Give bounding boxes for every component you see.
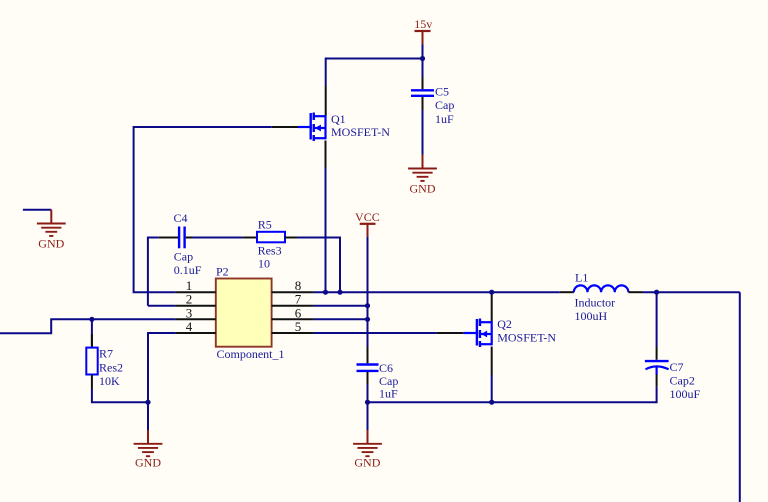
- svg-text:4: 4: [186, 319, 193, 334]
- transistor Q1 source pin: [325, 141, 327, 168]
- power port 15v stem: [422, 31, 424, 45]
- pin 8: [272, 291, 314, 293]
- ground symbol under P2: [134, 444, 163, 456]
- svg-text:C5: C5: [435, 85, 449, 99]
- wire R5 to node SW: [297, 238, 340, 293]
- capacitor C5 pin 2: [422, 97, 424, 110]
- svg-text:MOSFET-N: MOSFET-N: [497, 331, 556, 345]
- ground symbol under C6: [353, 444, 382, 456]
- wire junction to C5: [422, 59, 424, 78]
- svg-text:GND: GND: [38, 237, 64, 251]
- svg-text:0.1uF: 0.1uF: [174, 263, 202, 277]
- svg-text:10K: 10K: [99, 374, 120, 388]
- wire pin3 to left edge with jog: [0, 319, 175, 333]
- ground stem under C5: [422, 155, 424, 169]
- junction dot ground rail left: [145, 400, 150, 405]
- transistor Q1 drain pin: [325, 86, 327, 116]
- svg-text:Inductor: Inductor: [575, 296, 616, 310]
- svg-text:Q2: Q2: [497, 317, 512, 331]
- wire L1 to output: [643, 291, 740, 293]
- capacitor C4 pin 2: [186, 237, 193, 239]
- capacitor C5 pin 1: [422, 77, 424, 89]
- wire C6 junction to ground: [367, 402, 369, 430]
- wire Q1 gate loop: [134, 127, 272, 292]
- pin 3: [175, 318, 215, 320]
- wire Q2 source to rail: [491, 375, 493, 402]
- svg-text:1uF: 1uF: [435, 112, 454, 126]
- wire junction to ground: [147, 402, 149, 430]
- transistor Q2 drain pin: [491, 294, 493, 322]
- svg-text:P2: P2: [216, 265, 229, 279]
- svg-text:C4: C4: [174, 211, 188, 225]
- transistor Q2 symbol: [477, 319, 492, 348]
- power port 15v bar: [415, 30, 431, 32]
- wire R7 to ground rail: [92, 389, 148, 402]
- junction dot R5 branch: [337, 290, 342, 295]
- svg-text:100uH: 100uH: [575, 309, 608, 323]
- svg-text:MOSFET-N: MOSFET-N: [331, 125, 390, 139]
- svg-text:10: 10: [258, 257, 270, 271]
- svg-text:Cap: Cap: [435, 98, 454, 112]
- svg-text:GND: GND: [354, 456, 380, 470]
- wire output drop right edge: [739, 292, 741, 502]
- inductor L1 pin 2: [628, 291, 642, 293]
- transistor Q1 gate pin: [272, 126, 298, 128]
- svg-text:GND: GND: [135, 456, 161, 470]
- wire VCC down to C6: [367, 237, 369, 347]
- svg-text:Res2: Res2: [99, 361, 123, 375]
- svg-text:100uF: 100uF: [670, 387, 701, 401]
- svg-text:5: 5: [295, 319, 302, 334]
- pin 1: [175, 291, 215, 293]
- svg-text:Res3: Res3: [258, 244, 282, 258]
- wire C7 top: [656, 292, 658, 347]
- resistor R5 body: [257, 232, 285, 243]
- transistor Q1 symbol: [311, 113, 326, 142]
- junction dot C6 ground: [365, 400, 370, 405]
- wire C4 to R5: [192, 237, 243, 239]
- ground stem under C6: [367, 430, 369, 444]
- pin 2: [175, 305, 215, 307]
- capacitor C6 pin 2: [367, 372, 369, 384]
- capacitor C4 pin 1: [159, 237, 178, 239]
- capacitor C6 plates: [357, 365, 379, 371]
- pin 5: [272, 332, 314, 334]
- wire C7 to ground rail: [656, 387, 658, 404]
- wire C5 to GND: [422, 110, 424, 155]
- capacitor C4 plates: [179, 227, 185, 249]
- capacitor C7 pin 2: [656, 375, 658, 387]
- svg-text:15v: 15v: [414, 17, 432, 31]
- pin 4: [175, 332, 215, 334]
- svg-text:L1: L1: [575, 271, 588, 285]
- wire Q1 source to node SW: [325, 168, 327, 293]
- wire 15v to junction: [422, 45, 424, 59]
- wire C6 to ground rail: [367, 384, 369, 402]
- inductor L1 pin 1: [560, 291, 574, 293]
- junction dot VCC row7: [365, 303, 370, 308]
- svg-text:C7: C7: [670, 360, 684, 374]
- svg-text:Cap: Cap: [379, 374, 398, 388]
- capacitor C7 plate top: [645, 360, 669, 362]
- svg-text:C6: C6: [379, 361, 393, 375]
- ground stem left: [50, 210, 52, 224]
- capacitor C6 pin 1: [367, 347, 369, 363]
- svg-text:1uF: 1uF: [379, 387, 398, 401]
- pin 7: [272, 305, 314, 307]
- wire row6: [314, 318, 368, 320]
- resistor R7 pin 1: [91, 319, 93, 347]
- ground stem under P2: [147, 430, 149, 444]
- svg-text:Component_1: Component_1: [217, 347, 285, 361]
- wire stub at left ground: [23, 209, 51, 211]
- wire row5 to Q2 gate: [314, 332, 437, 334]
- resistor R5 pin 2: [285, 237, 297, 239]
- wire row8 rail: [314, 291, 560, 293]
- capacitor C7 bottom lead stub: [655, 367, 657, 375]
- junction dot Q2 source: [489, 400, 494, 405]
- wire corner to C4: [148, 238, 159, 306]
- svg-text:Q1: Q1: [331, 112, 346, 126]
- ground symbol under C5: [408, 169, 437, 181]
- junction dot R7 top: [89, 317, 94, 322]
- junction dot VCC row6: [365, 317, 370, 322]
- pin 6: [272, 318, 314, 320]
- svg-text:Cap2: Cap2: [670, 374, 695, 388]
- power port VCC stem: [367, 224, 369, 237]
- capacitor C7 plate bottom curved: [646, 366, 669, 369]
- wire pin4 drop: [148, 333, 175, 402]
- resistor R5 pin 1: [243, 237, 258, 239]
- inductor L1 body: [574, 285, 629, 292]
- svg-text:Cap: Cap: [174, 250, 193, 264]
- transistor Q2 source pin: [491, 347, 493, 376]
- svg-text:VCC: VCC: [355, 210, 380, 224]
- junction dot at 15v node: [420, 56, 425, 61]
- junction dot Q2 drain: [489, 290, 494, 295]
- capacitor C7 pin 1: [656, 347, 658, 360]
- junction dot C7 top: [654, 290, 659, 295]
- svg-text:GND: GND: [410, 182, 436, 196]
- svg-text:R5: R5: [258, 218, 272, 232]
- ground symbol left: [37, 224, 66, 236]
- capacitor C5 plates: [411, 90, 434, 96]
- power port VCC bar: [360, 223, 376, 225]
- wire junction to Q1 drain corner: [326, 59, 423, 87]
- wire pin2 handled by C4 corner: [148, 305, 176, 307]
- wire ground rail right: [368, 401, 657, 403]
- resistor R7 body: [86, 348, 97, 375]
- transistor Q2 gate pin: [437, 332, 464, 334]
- svg-text:R7: R7: [99, 346, 113, 360]
- wire row7: [314, 305, 368, 307]
- resistor R7 pin 2: [91, 375, 93, 390]
- junction dot Q1 source: [323, 290, 328, 295]
- component P2 body: [216, 279, 272, 347]
